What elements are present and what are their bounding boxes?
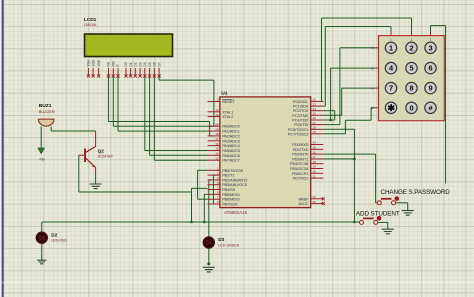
U1 pin 18 PD4/OC1B <box>311 163 324 165</box>
wire PB1-PB7 vertical <box>212 175 214 204</box>
wire PC0 vertical <box>321 18 323 101</box>
svg-text:PA4/ADC4: PA4/ADC4 <box>222 144 240 148</box>
svg-text:BC547BP: BC547BP <box>98 155 114 159</box>
keypad row pin B <box>375 67 379 69</box>
svg-text:21: 21 <box>313 174 317 178</box>
U1 pin 7 PB6/MISO <box>208 198 220 200</box>
svg-text:LED-RED: LED-RED <box>51 239 67 243</box>
U1 pin 30 AVCC <box>311 203 324 205</box>
U1 pin 13 XTAL1 <box>208 111 220 113</box>
wire PB5 down <box>203 194 205 222</box>
wire D6 to PA7 <box>154 159 207 161</box>
svg-text:D3: D3 <box>218 237 224 242</box>
svg-text:PD5/OC1A: PD5/OC1A <box>290 167 309 171</box>
U1 pin 33 PA7/ADC7 <box>208 159 220 161</box>
svg-text:D3: D3 <box>138 62 142 66</box>
U1 pin 35 PA5/ADC5 <box>208 150 220 152</box>
svg-text:16: 16 <box>313 150 317 154</box>
svg-text:E: E <box>116 64 120 66</box>
wire D7 down to PA0 <box>213 80 215 126</box>
svg-text:PD2/INT0: PD2/INT0 <box>292 153 308 157</box>
svg-text:✱: ✱ <box>387 103 395 113</box>
junction <box>203 221 206 224</box>
U1 pin 9 RESET <box>208 101 220 103</box>
svg-text:12: 12 <box>215 113 219 117</box>
U1 pin 25 PC3/TMS <box>311 114 324 116</box>
wire PB6 entry <box>198 198 208 200</box>
svg-text:PA7/ADC7: PA7/ADC7 <box>222 159 240 163</box>
svg-text:2: 2 <box>409 43 413 52</box>
svg-text:RESET: RESET <box>222 100 235 104</box>
U1 pin 37 PA3/ADC3 <box>208 140 220 142</box>
ground student button <box>382 229 394 234</box>
keypad button 7 <box>385 82 396 93</box>
wire to password button <box>375 154 377 203</box>
svg-text:RW: RW <box>112 61 116 66</box>
keypad column pin 1 <box>390 32 392 36</box>
wire PB5 entry <box>204 193 207 195</box>
svg-text:PC7/TOSC2: PC7/TOSC2 <box>288 132 308 136</box>
wire PC6 vertical <box>353 129 355 222</box>
svg-text:6: 6 <box>428 64 432 73</box>
svg-text:LCD1: LCD1 <box>84 17 97 22</box>
wire Q2 base horizontal <box>79 191 192 193</box>
wire row D jog vertical <box>344 120 346 134</box>
U1 pin 12 XTAL2 <box>208 116 220 118</box>
wire PC4 entry <box>323 119 334 121</box>
svg-text:PA5/ADC5: PA5/ADC5 <box>222 149 240 153</box>
svg-text:PA2/ADC2: PA2/ADC2 <box>222 134 240 138</box>
wire PB2 entry <box>209 179 212 181</box>
wire D2 to ground <box>41 243 43 260</box>
svg-text:32: 32 <box>313 195 317 199</box>
wire RW horizontal <box>113 125 214 127</box>
wire PC0 entry <box>322 100 324 102</box>
ground D3 <box>203 267 215 272</box>
svg-text:20: 20 <box>313 170 317 174</box>
U1 pin 27 PC5/TDI <box>311 124 324 126</box>
svg-text:15: 15 <box>313 146 317 150</box>
svg-text:17: 17 <box>313 155 317 159</box>
svg-text:27: 27 <box>313 121 317 125</box>
svg-text:29: 29 <box>313 130 317 134</box>
svg-text:0: 0 <box>409 103 413 112</box>
wire PC1 entry <box>323 105 325 107</box>
svg-text:22: 22 <box>313 98 317 102</box>
U1 pin 26 PC4/TDO <box>311 119 324 121</box>
buzzer BUZ1 symbol <box>38 119 54 126</box>
wire PC1 vertical <box>324 27 326 107</box>
svg-text:D7: D7 <box>157 62 161 66</box>
svg-text:36: 36 <box>215 142 219 146</box>
svg-text:D0: D0 <box>124 62 128 66</box>
svg-text:VSS: VSS <box>87 60 91 66</box>
wire row D horizontal <box>371 107 374 109</box>
svg-text:BUZZER: BUZZER <box>39 109 55 114</box>
U1 pin 21 PD7/OC2 <box>311 177 324 179</box>
wire col3 top <box>431 25 446 27</box>
U1 pin 1 PB0/T0/XCK <box>208 169 220 171</box>
wire PB4 entry <box>192 187 208 189</box>
U1 pin 32 AREF <box>311 198 324 200</box>
wire PD2 to password <box>323 153 375 155</box>
U1 pin 23 PC1/SDA <box>311 105 324 107</box>
svg-text:PC0/SCL: PC0/SCL <box>293 100 308 104</box>
wire E horizontal to PA1 <box>118 130 208 132</box>
svg-text:28: 28 <box>313 126 317 130</box>
svg-text:18: 18 <box>313 160 317 164</box>
svg-text:PB3/AIN1/OC0: PB3/AIN1/OC0 <box>222 183 247 187</box>
svg-text:38: 38 <box>215 132 219 136</box>
wire E vertical <box>117 76 119 131</box>
svg-text:PB5/MOSI: PB5/MOSI <box>222 193 239 197</box>
wire row C vertical to PC3 <box>341 88 343 115</box>
wire row B horizontal <box>331 67 375 69</box>
transistor Q2 symbol <box>84 149 86 163</box>
wire RS into PA2 <box>210 135 213 137</box>
wire PB7 entry <box>213 203 216 205</box>
svg-text:PD0/RXD: PD0/RXD <box>292 143 308 147</box>
U1 pin 2 PB1/T1 <box>208 174 220 176</box>
U1 pin 29 PC7/TOSC2 <box>311 133 324 135</box>
svg-text:7: 7 <box>389 84 393 93</box>
ground Q2 emitter <box>90 184 102 189</box>
svg-text:30: 30 <box>313 200 317 204</box>
wire student to ground <box>376 221 388 223</box>
U1 pin 40 PA0/ADC0 <box>208 125 220 127</box>
U1 pin 24 PC2/TCK <box>311 110 324 112</box>
wire D7 vertical stub <box>158 76 160 80</box>
svg-text:PD3/INT1: PD3/INT1 <box>292 157 308 161</box>
U1 pin 36 PA4/ADC4 <box>208 145 220 147</box>
keypad button # <box>425 102 436 113</box>
svg-text:26: 26 <box>313 116 317 120</box>
wire RS horizontal <box>109 121 210 123</box>
U1 pin 19 PD5/OC1A <box>311 168 324 170</box>
svg-text:19: 19 <box>313 165 317 169</box>
keypad button 4 <box>385 62 396 73</box>
wire PB0 entry <box>198 169 208 171</box>
wire Q2 emitter to ground <box>95 173 97 184</box>
svg-text:VEE: VEE <box>97 60 101 66</box>
U1 pin 3 PB2/AIN0/INT2 <box>208 179 220 181</box>
U1 ATMEGA16 body <box>220 97 311 208</box>
svg-text:B: B <box>371 66 373 70</box>
svg-text:D2: D2 <box>134 62 138 66</box>
wire PC6 horizontal <box>323 128 354 130</box>
svg-text:AREF: AREF <box>299 197 310 201</box>
wire RS corner vertical <box>209 122 211 136</box>
svg-text:XTAL2: XTAL2 <box>222 115 233 119</box>
LED D2 <box>36 232 47 243</box>
wire PC7 entry <box>323 133 345 135</box>
svg-text:PD7/OC2: PD7/OC2 <box>293 177 309 181</box>
keypad button 8 <box>406 82 417 93</box>
LCD LCD1 screen <box>85 34 173 57</box>
wire PB1 entry <box>213 174 216 176</box>
svg-text:PA1/ADC1: PA1/ADC1 <box>222 130 240 134</box>
junction <box>329 119 332 122</box>
svg-text:40: 40 <box>215 122 219 126</box>
svg-text:PD6/ICP1: PD6/ICP1 <box>292 172 308 176</box>
wire PD3 to student net <box>323 158 354 160</box>
wire into PA0 <box>214 125 216 127</box>
wire top horizontal col1 <box>325 26 391 28</box>
wire row C horizontal <box>342 87 375 89</box>
wire RS vertical <box>108 76 110 122</box>
svg-text:PB0/T0/XCK: PB0/T0/XCK <box>222 169 243 173</box>
wire row D vertical <box>370 108 372 121</box>
wire PC3 entry <box>323 114 341 116</box>
wire down to LED D2 <box>41 222 43 232</box>
Q2 collector pin wire <box>95 131 97 147</box>
wire D7 top horizontal <box>159 79 214 81</box>
svg-text:23: 23 <box>313 102 317 106</box>
keypad button 9 <box>425 82 436 93</box>
sheet border line <box>0 0 1 297</box>
keypad button 2 <box>406 42 417 53</box>
U1 pin 28 PC6/TOSC1 <box>311 128 324 130</box>
LED D3 <box>203 237 214 248</box>
svg-text:13: 13 <box>215 108 219 112</box>
svg-text:8: 8 <box>409 84 413 93</box>
svg-text:PC3/TMS: PC3/TMS <box>292 114 309 118</box>
U1 pin 4 PB3/AIN1/OC0 <box>208 184 220 186</box>
svg-text:PC5/TDI: PC5/TDI <box>294 123 308 127</box>
svg-text:PB1/T1: PB1/T1 <box>222 174 234 178</box>
svg-text:LM016L: LM016L <box>84 23 97 27</box>
svg-text:33: 33 <box>215 156 219 160</box>
ground password button <box>402 211 414 216</box>
wire col3 vertical stub <box>430 26 432 36</box>
svg-text:PA3/ADC3: PA3/ADC3 <box>222 139 240 143</box>
svg-text:ATMEGA16: ATMEGA16 <box>224 210 248 215</box>
svg-text:PD1/TXD: PD1/TXD <box>293 148 309 152</box>
svg-text:34: 34 <box>215 152 219 156</box>
svg-text:PD4/OC1B: PD4/OC1B <box>290 162 309 166</box>
svg-text:3: 3 <box>428 43 432 52</box>
keypad button 3 <box>425 42 436 53</box>
U1 pin 5 PB4/SS <box>208 189 220 191</box>
U1 pin 14 PD0/RXD <box>311 144 324 146</box>
svg-text:D6: D6 <box>153 62 157 66</box>
U1 pin 22 PC0/SCL <box>311 100 324 102</box>
svg-text:D4: D4 <box>143 62 147 66</box>
wire col3 right vertical <box>445 26 447 184</box>
svg-text:XTAL1: XTAL1 <box>222 110 233 114</box>
svg-text:PC2/TCK: PC2/TCK <box>293 109 309 113</box>
svg-text:D1: D1 <box>129 62 133 66</box>
svg-text:LED-GREEN: LED-GREEN <box>218 244 239 248</box>
svg-text:25: 25 <box>313 112 317 116</box>
keypad row pin D <box>375 107 379 109</box>
svg-text:Labcenter: Labcenter <box>220 270 268 281</box>
svg-text:35: 35 <box>215 147 219 151</box>
svg-text:D2: D2 <box>51 233 57 238</box>
power terminal +5v arrow <box>38 148 44 154</box>
wire col2 vertical <box>411 18 413 36</box>
wire RW vertical <box>112 76 114 126</box>
svg-text:PB6/MISO: PB6/MISO <box>222 198 240 202</box>
U1 pin 39 PA1/ADC1 <box>208 130 220 132</box>
svg-text:PB4/SS: PB4/SS <box>222 188 235 192</box>
svg-text:Q2: Q2 <box>98 148 105 153</box>
junction <box>207 262 210 265</box>
Q2 emitter pin wire <box>95 168 97 174</box>
wire PC2 entry <box>323 110 334 112</box>
wire student ground vertical <box>387 222 389 229</box>
keypad button 6 <box>425 62 436 73</box>
junction <box>353 221 356 224</box>
keypad body <box>379 36 445 121</box>
svg-text:14: 14 <box>313 141 317 145</box>
push button CHANGE S.PASSWORD <box>381 198 392 200</box>
wire buzzer left leg to power <box>40 127 42 148</box>
svg-text:D5: D5 <box>148 62 152 66</box>
svg-text:VDD: VDD <box>91 59 95 66</box>
svg-text:PB2/AIN0/INT2: PB2/AIN0/INT2 <box>222 178 247 182</box>
wire row A horizontal <box>340 47 375 49</box>
wire PB0-PB6 vertical <box>197 170 199 199</box>
junction <box>353 158 356 161</box>
svg-text:1: 1 <box>389 43 393 52</box>
svg-text:+5v: +5v <box>39 158 45 162</box>
keypad button ✱ <box>385 102 396 113</box>
U1 pin 17 PD3/INT1 <box>311 158 324 160</box>
keypad column pin 3 <box>430 32 432 36</box>
wire top horizontal col2 <box>322 17 412 19</box>
wire D3 to ground <box>208 248 210 264</box>
U1 pin 6 PB5/MOSI <box>208 193 220 195</box>
keypad column pin 2 <box>411 32 413 36</box>
wire bottom horizontal net <box>42 221 360 223</box>
wire PB2 down to LED D3 <box>208 180 210 237</box>
wire buzzer to Q2 collector <box>51 130 95 132</box>
keypad button 5 <box>406 62 417 73</box>
wire D5 vertical <box>149 76 151 155</box>
wire D6 vertical <box>153 76 155 160</box>
wire PC2 down link <box>334 111 336 120</box>
keypad button 1 <box>385 42 396 53</box>
svg-text:9: 9 <box>428 84 432 93</box>
wire D4 to PA5 <box>145 150 208 152</box>
wire Q2 base vertical <box>78 155 80 192</box>
svg-text:PC6/TOSC1: PC6/TOSC1 <box>288 128 308 132</box>
U1 pin 15 PD1/TXD <box>311 148 324 150</box>
svg-text:PC1/SDA: PC1/SDA <box>293 105 309 109</box>
svg-text:PA0/ADC0: PA0/ADC0 <box>222 125 240 129</box>
push button ADD STUDENT <box>363 217 374 219</box>
wire PC5 entry <box>323 124 340 126</box>
keypad row pin C <box>375 87 379 89</box>
U1 pin 16 PD2/INT0 <box>311 153 324 155</box>
wire buzzer right leg <box>50 127 52 132</box>
keypad button 0 <box>406 102 417 113</box>
wire row B vertical <box>330 68 332 120</box>
svg-text:AVCC: AVCC <box>298 202 308 206</box>
wire D5 to PA6 <box>150 154 208 156</box>
svg-text:37: 37 <box>215 137 219 141</box>
U1 pin 34 PA6/ADC6 <box>208 154 220 156</box>
wire password ground vertical <box>407 203 409 211</box>
wire D4 vertical <box>144 76 146 151</box>
U1 pin 8 PB7/SCK <box>208 203 220 205</box>
wire row D jog horizontal <box>345 119 371 121</box>
junction <box>190 221 193 224</box>
U1 pin 38 PA2/ADC2 <box>208 135 220 137</box>
keypad row pin A <box>375 47 379 49</box>
wire password to ground <box>396 202 408 204</box>
U1 pin 20 PD6/ICP1 <box>311 172 324 174</box>
svg-text:PC4/TDO: PC4/TDO <box>292 119 308 123</box>
wire row A vertical to PC5 <box>339 48 341 125</box>
wire vertical to bottom net <box>191 188 193 222</box>
svg-text:RS: RS <box>107 62 111 66</box>
svg-text:39: 39 <box>215 127 219 131</box>
svg-text:U1: U1 <box>221 91 228 97</box>
svg-text:A: A <box>371 46 373 50</box>
wire col1 vertical <box>390 27 392 36</box>
svg-text:5: 5 <box>409 64 413 73</box>
wire into password button <box>376 202 378 204</box>
svg-text:PB7/SCK: PB7/SCK <box>222 203 238 207</box>
svg-text:PA6/ADC6: PA6/ADC6 <box>222 154 240 158</box>
svg-text:24: 24 <box>313 107 317 111</box>
svg-text:#: # <box>428 103 432 112</box>
ground D2 <box>37 260 46 264</box>
svg-text:CHANGE S.PASSWORD: CHANGE S.PASSWORD <box>381 189 451 196</box>
